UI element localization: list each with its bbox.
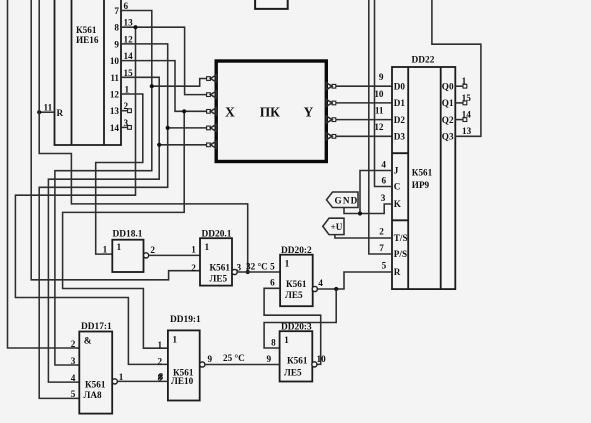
svg-text:9: 9 bbox=[379, 72, 384, 82]
svg-text:Q2: Q2 bbox=[442, 115, 454, 125]
DD22 Q2 stub bbox=[455, 119, 463, 121]
svg-text:3: 3 bbox=[381, 193, 386, 203]
wire from top to DD20.1 pin2 bbox=[31, 0, 200, 280]
svg-text:11: 11 bbox=[110, 73, 119, 83]
counter pin 3 stub bbox=[121, 126, 128, 128]
svg-text:+U: +U bbox=[331, 222, 343, 232]
wire stage12 (pin 1) to DD18 input bbox=[96, 94, 143, 254]
svg-text:GND: GND bbox=[335, 196, 359, 206]
wire stage10 (pin 14) to PK input3 bbox=[121, 61, 207, 112]
wire stage7 (pin 6) to DD17 pin3 bbox=[55, 11, 152, 366]
svg-text:14: 14 bbox=[462, 110, 472, 120]
svg-text:14: 14 bbox=[110, 123, 120, 133]
DD22 Q0 stub bbox=[455, 85, 463, 87]
svg-text:К561: К561 bbox=[286, 279, 307, 289]
wire PK Y2 to DD22 D2 bbox=[336, 119, 392, 121]
+U flag bbox=[323, 218, 344, 234]
svg-text:12: 12 bbox=[110, 90, 120, 100]
svg-text:4: 4 bbox=[381, 160, 386, 170]
svg-text:1: 1 bbox=[284, 336, 289, 346]
wire DD20:2 out to DD22 R bbox=[317, 272, 392, 289]
wire DD20:2 out branch to DD20:3 in8 bbox=[264, 289, 336, 348]
svg-text:9: 9 bbox=[114, 39, 119, 49]
svg-text:11: 11 bbox=[44, 103, 53, 113]
DD19:1 NOR gate (K561 LE10) bbox=[168, 315, 205, 401]
wire PK Y0 to DD22 D0 bbox=[336, 85, 392, 87]
svg-text:D0: D0 bbox=[394, 81, 406, 91]
svg-text:25 °С: 25 °С bbox=[223, 353, 245, 363]
svg-text:J: J bbox=[394, 166, 399, 176]
svg-text:DD18.1: DD18.1 bbox=[113, 230, 143, 240]
svg-text:R: R bbox=[57, 108, 64, 118]
counter DD (K561 IE16) body bbox=[55, 0, 122, 145]
svg-text:1: 1 bbox=[125, 85, 130, 95]
top center box (cut off component) bbox=[255, 0, 288, 9]
svg-text:4: 4 bbox=[318, 278, 323, 288]
PK input pin symbols bbox=[207, 75, 217, 148]
svg-text:8: 8 bbox=[159, 371, 164, 381]
svg-text:Y: Y bbox=[304, 105, 314, 120]
svg-text:ЛЕ10: ЛЕ10 bbox=[171, 376, 194, 386]
svg-text:DD17:1: DD17:1 bbox=[81, 322, 112, 332]
svg-text:1: 1 bbox=[158, 340, 163, 350]
svg-text:2: 2 bbox=[71, 339, 76, 349]
junction stage8 bbox=[133, 25, 137, 29]
wire stage11 branch to PK input5 bbox=[159, 144, 206, 146]
counter output pin labels bbox=[124, 1, 134, 128]
svg-text:DD20:2: DD20:2 bbox=[281, 246, 312, 256]
svg-text:&: & bbox=[84, 337, 92, 347]
wire stage8 branch to DD19 pin2 bbox=[15, 27, 168, 364]
svg-text:2: 2 bbox=[191, 263, 196, 273]
svg-text:ЛЕ5: ЛЕ5 bbox=[210, 274, 228, 284]
DD20:2 NOR gate bbox=[280, 255, 317, 307]
wire DD20:3 out to DD20:2 in6 bbox=[264, 288, 321, 364]
wire top to DD22 P/S bbox=[369, 0, 392, 254]
svg-text:6: 6 bbox=[124, 1, 129, 11]
wire DD22 Q3 to top bbox=[432, 0, 481, 136]
svg-text:DD22: DD22 bbox=[412, 56, 435, 66]
GND flag bbox=[327, 192, 359, 208]
svg-text:6: 6 bbox=[382, 176, 387, 186]
junction GND/J bbox=[358, 211, 362, 215]
wire DD22 J to GND net bbox=[360, 171, 392, 214]
junction stage7/PK1 bbox=[150, 84, 154, 88]
DD18.1 inverter bbox=[112, 230, 148, 273]
svg-text:4: 4 bbox=[71, 373, 76, 383]
svg-text:К561: К561 bbox=[85, 379, 106, 389]
svg-text:C: C bbox=[394, 182, 401, 192]
svg-text:12: 12 bbox=[124, 34, 134, 44]
svg-text:1: 1 bbox=[103, 245, 108, 255]
svg-text:14: 14 bbox=[124, 51, 134, 61]
svg-text:9: 9 bbox=[267, 354, 272, 364]
svg-text:DD20.1: DD20.1 bbox=[202, 229, 232, 239]
svg-text:К561: К561 bbox=[76, 25, 97, 35]
svg-text:10: 10 bbox=[374, 89, 384, 99]
svg-text:1: 1 bbox=[172, 336, 177, 346]
wire DD18.1 out to DD20.1 in1 bbox=[149, 254, 200, 256]
svg-text:R: R bbox=[394, 267, 401, 277]
wire stage10 branch to DD19 pin1 bbox=[63, 111, 185, 348]
svg-text:X: X bbox=[225, 105, 235, 120]
DD17:1 NAND gate (K561 LA8) bbox=[79, 322, 117, 414]
wire PK Y3 to DD22 D3 bbox=[336, 135, 392, 137]
DD22 Q1 stub bbox=[455, 102, 463, 104]
svg-text:11: 11 bbox=[375, 106, 384, 116]
svg-text:1: 1 bbox=[285, 260, 290, 270]
junction DD20:2 out bbox=[334, 287, 338, 291]
svg-text:13: 13 bbox=[462, 126, 472, 136]
wire GND to DD22 K bbox=[344, 204, 392, 214]
junction stage11/PK5 bbox=[157, 143, 161, 147]
svg-text:1: 1 bbox=[117, 243, 122, 253]
svg-text:5: 5 bbox=[270, 262, 275, 272]
svg-text:ПК: ПК bbox=[260, 105, 280, 120]
svg-text:2: 2 bbox=[379, 227, 384, 237]
svg-text:DD19:1: DD19:1 bbox=[170, 315, 201, 325]
svg-text:ИР9: ИР9 bbox=[412, 180, 430, 190]
junction on R net at pin 11 bbox=[37, 110, 41, 114]
svg-text:15: 15 bbox=[462, 93, 472, 103]
junction stage9/PK4 bbox=[166, 126, 170, 130]
svg-text:2: 2 bbox=[150, 245, 155, 255]
svg-text:ИЕ16: ИЕ16 bbox=[76, 35, 99, 45]
svg-text:10: 10 bbox=[317, 354, 327, 364]
svg-text:6: 6 bbox=[270, 278, 275, 288]
svg-text:3: 3 bbox=[237, 263, 242, 273]
wire DD20.1 out to DD20:2 in5 bbox=[237, 271, 280, 273]
svg-text:К561: К561 bbox=[287, 356, 308, 366]
svg-text:Q1: Q1 bbox=[442, 98, 454, 108]
DD20:3 NOR gate bbox=[280, 331, 317, 381]
wire top to DD22 C bbox=[375, 0, 393, 187]
svg-text:32 °С: 32 °С bbox=[246, 262, 268, 272]
svg-text:5: 5 bbox=[382, 261, 387, 271]
svg-text:Q3: Q3 bbox=[442, 132, 454, 142]
DD20.1 NOR gate bbox=[200, 229, 237, 285]
junction R net / DD20.1 out bbox=[246, 270, 250, 274]
wire from top to DD17 pin2 bbox=[8, 0, 80, 348]
svg-text:1: 1 bbox=[462, 76, 467, 86]
svg-text:T/S: T/S bbox=[394, 233, 408, 243]
wire stage11 (pin 15) to DD17 pin4 bbox=[48, 77, 159, 382]
svg-text:1: 1 bbox=[119, 372, 124, 382]
wire DD19 out to DD20:3 in9 bbox=[205, 364, 280, 366]
svg-text:P/S: P/S bbox=[394, 249, 407, 259]
svg-text:13: 13 bbox=[124, 18, 134, 28]
wire +U to DD22 T/S bbox=[335, 235, 392, 238]
wire stage9 (pin 12) to DD17 pin5 bbox=[39, 44, 168, 399]
svg-text:13: 13 bbox=[110, 106, 120, 116]
svg-text:5: 5 bbox=[71, 389, 76, 399]
svg-text:15: 15 bbox=[124, 68, 134, 78]
svg-text:7: 7 bbox=[114, 6, 119, 16]
svg-text:10: 10 bbox=[110, 56, 120, 66]
svg-text:К561: К561 bbox=[210, 263, 231, 273]
svg-text:D3: D3 bbox=[394, 132, 406, 142]
PK converter block U1 bbox=[216, 61, 326, 162]
svg-text:ЛЕ5: ЛЕ5 bbox=[285, 290, 303, 300]
svg-text:2: 2 bbox=[158, 357, 163, 367]
svg-text:К561: К561 bbox=[412, 168, 433, 178]
svg-text:12: 12 bbox=[374, 122, 384, 132]
wire stage9 branch to PK input4 bbox=[168, 127, 207, 129]
counter pin 11 wire (R) bbox=[39, 111, 54, 113]
svg-text:3: 3 bbox=[71, 356, 76, 366]
counter stage numbers 7-14 (right field) bbox=[110, 6, 120, 133]
svg-text:D1: D1 bbox=[394, 98, 406, 108]
counter pin 2 stub bbox=[121, 110, 128, 112]
svg-text:1: 1 bbox=[205, 243, 210, 253]
svg-text:ЛА8: ЛА8 bbox=[84, 390, 102, 400]
svg-text:1: 1 bbox=[191, 245, 196, 255]
svg-text:ЛЕ5: ЛЕ5 bbox=[284, 368, 302, 378]
wire DD17 out to DD19 in8 bbox=[117, 380, 167, 382]
svg-text:K: K bbox=[394, 199, 402, 209]
wire net R: counter reset from DD20.1 output bbox=[39, 0, 248, 272]
junction stage10/PK3 bbox=[182, 109, 186, 113]
svg-text:8: 8 bbox=[271, 338, 276, 348]
svg-text:7: 7 bbox=[379, 243, 384, 253]
svg-text:D2: D2 bbox=[394, 115, 406, 125]
wire stage7 branch to PK input1 bbox=[152, 79, 207, 87]
svg-text:8: 8 bbox=[114, 23, 119, 33]
svg-text:Q0: Q0 bbox=[442, 81, 454, 91]
wire stage8 (pin 13) to PK input2 bbox=[121, 27, 207, 94]
svg-text:9: 9 bbox=[208, 354, 213, 364]
wire PK Y1 to DD22 D1 bbox=[336, 102, 392, 104]
DD22 K561 IR9 register bbox=[392, 56, 455, 290]
PK output pin symbols bbox=[326, 83, 336, 140]
